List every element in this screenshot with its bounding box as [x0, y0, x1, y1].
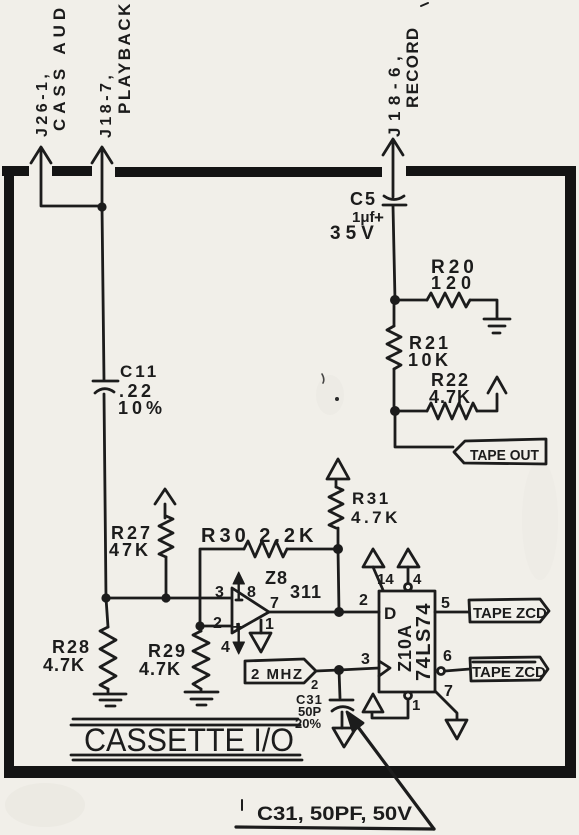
svg-text:4.7K: 4.7K — [43, 655, 85, 675]
resistor R20 with ground — [395, 257, 510, 333]
resistor R27 with power arrow — [109, 489, 175, 598]
flip-flop pin 4 power triangle — [398, 549, 419, 591]
node R27 — [161, 593, 170, 602]
svg-text:Z10A: Z10A — [395, 624, 415, 672]
flip-flop pin 14 power triangle — [363, 549, 384, 590]
node main/R28 — [101, 593, 110, 602]
svg-text:CASS AUD: CASS AUD — [50, 3, 69, 131]
svg-text:2: 2 — [359, 592, 368, 609]
node C5/R20/R21 — [390, 295, 400, 305]
svg-text:R31: R31 — [352, 489, 391, 508]
svg-text:8: 8 — [247, 584, 256, 601]
svg-text:C31, 50PF, 50V: C31, 50PF, 50V — [257, 804, 412, 825]
wire op-amp pin 2 to node — [200, 625, 231, 628]
title CASSETTE I/O — [71, 719, 302, 760]
svg-text:TAPE ZCD: TAPE ZCD — [473, 605, 547, 622]
svg-text:TAPE ZCD: TAPE ZCD — [472, 664, 546, 681]
stray mark — [335, 397, 339, 401]
wire 2MHZ to flip-flop pin 3 — [316, 668, 379, 671]
svg-text:4: 4 — [221, 639, 230, 656]
op-amp Z8 311 — [213, 568, 322, 656]
svg-text:+: + — [233, 619, 242, 636]
svg-text:7: 7 — [270, 595, 279, 612]
svg-text:7: 7 — [444, 683, 453, 700]
svg-text:10K: 10K — [408, 350, 452, 370]
svg-text:1: 1 — [265, 616, 274, 633]
wire to TAPE OUT — [395, 411, 453, 447]
capacitor C31 with ground triangle — [295, 670, 356, 747]
svg-text:311: 311 — [290, 582, 322, 602]
node R30/R31 — [333, 544, 343, 554]
svg-text:5: 5 — [441, 595, 450, 612]
svg-text:C5: C5 — [350, 189, 377, 209]
flip-flop Z10A 74LS74 — [359, 571, 453, 714]
svg-text:RECORD: RECORD — [403, 27, 422, 108]
wire C5 down to R20 node — [393, 206, 395, 300]
svg-text:4: 4 — [413, 571, 422, 588]
connector J26-1 CASS AUD — [31, 3, 101, 206]
flip-flop pin 5 wire — [435, 611, 469, 614]
wire R31 node down to output wire — [338, 549, 339, 612]
svg-text:2: 2 — [311, 677, 318, 692]
svg-text:Z8: Z8 — [265, 568, 288, 588]
svg-text:R30 2.2K: R30 2.2K — [201, 525, 318, 547]
svg-text:2: 2 — [213, 615, 222, 632]
flip-flop pin 6 wire — [438, 668, 471, 675]
wire op-amp output to flip-flop pin 2 — [269, 611, 379, 614]
connector J18-7 PLAYBACK — [92, 1, 134, 206]
connector J18-6 RECORD — [383, 3, 428, 197]
svg-text:TAPE OUT: TAPE OUT — [470, 447, 539, 464]
svg-text:4.7K: 4.7K — [139, 659, 181, 679]
svg-text:J26-1,: J26-1, — [34, 71, 51, 137]
node pin2/R29/R30 — [195, 621, 204, 630]
node output/pin2 — [334, 607, 344, 617]
2 MHZ flag — [245, 659, 318, 692]
flip-flop pin 7 wire with ground triangle — [435, 691, 467, 739]
node R21/R22/tapeout — [390, 406, 400, 416]
wire C11 to main node — [104, 394, 106, 598]
wire main horizontal to op-amp pin 3 — [106, 597, 231, 600]
capacitor C5 — [330, 189, 406, 244]
svg-text:120: 120 — [431, 273, 476, 293]
svg-text:47K: 47K — [109, 540, 151, 560]
svg-text:35V: 35V — [330, 223, 379, 244]
resistor R21 — [387, 300, 452, 411]
svg-text:4.7K: 4.7K — [351, 508, 401, 527]
capacitor C11 — [93, 362, 166, 418]
svg-text:10%: 10% — [118, 398, 166, 418]
node playback junction — [97, 202, 106, 211]
resistor R22 with power arrow — [395, 370, 506, 419]
resistor R28 with ground — [43, 598, 126, 706]
svg-text:74LS74: 74LS74 — [413, 602, 435, 681]
svg-text:2 MHZ: 2 MHZ — [251, 666, 304, 683]
TAPE ZCD inverted flag (pin 6) — [470, 657, 548, 681]
svg-text:J18-6,: J18-6, — [385, 50, 404, 137]
svg-text:CASSETTE I/O: CASSETTE I/O — [84, 722, 294, 758]
svg-text:4.7K: 4.7K — [429, 387, 471, 407]
TAPE ZCD flag (pin 5) — [469, 599, 549, 622]
svg-text:R29: R29 — [148, 641, 187, 661]
svg-text:6: 6 — [443, 648, 452, 665]
resistor R30 2.2K — [200, 525, 338, 626]
svg-text:3: 3 — [361, 651, 370, 668]
svg-text:1: 1 — [412, 697, 420, 714]
svg-text:J18-7,: J18-7, — [98, 72, 115, 138]
node 2MHZ/C31/pin3 — [334, 665, 344, 675]
callout note C31 50PF 50V — [236, 712, 434, 829]
svg-text:C11: C11 — [120, 362, 159, 381]
svg-text:3: 3 — [215, 584, 224, 601]
svg-text:D: D — [384, 604, 396, 623]
resistor R29 with ground — [139, 626, 218, 705]
svg-text:PLAYBACK: PLAYBACK — [115, 1, 134, 114]
flip-flop pin 1 wire and power triangle — [363, 692, 412, 718]
TAPE OUT flag — [454, 439, 546, 464]
svg-text:R28: R28 — [52, 637, 91, 657]
resistor R31 with power arrow — [327, 459, 401, 549]
wire playback down to C11 — [102, 207, 104, 380]
